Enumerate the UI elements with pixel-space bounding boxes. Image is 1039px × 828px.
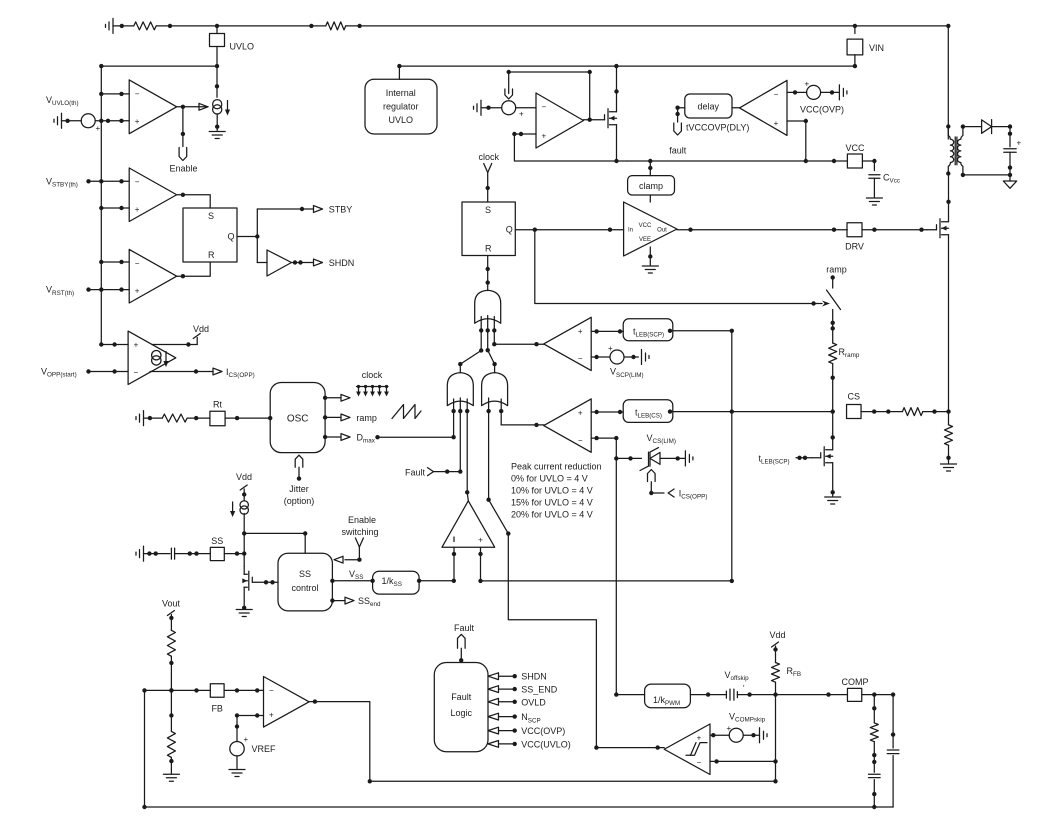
arrow into zener from I_CS(OPP): [648, 470, 656, 482]
voltage source VREF: [230, 742, 244, 756]
svg-text:VREF: VREF: [252, 744, 277, 754]
wire: CS pin to sense resistor: [861, 411, 902, 413]
wire: FF2 Q to driver: [515, 229, 623, 231]
wire: plus rail through to Vdd tick: [152, 344, 197, 346]
wire: Q2 source to VCC rail: [616, 125, 618, 161]
latch FF1 (STBY/SHDN): [183, 208, 237, 262]
block t_LEB(SCP): [623, 319, 673, 341]
svg-text:VCC(OVP): VCC(OVP): [521, 726, 565, 736]
svg-text:−: −: [578, 354, 583, 363]
svg-text:Fault: Fault: [405, 468, 426, 478]
svg-text:SHDN: SHDN: [329, 258, 355, 268]
wire to bottom rail: [873, 780, 875, 807]
op-amp U6 (error amplifier): [264, 677, 310, 728]
wire: [481, 107, 502, 109]
wire: current source to ground: [216, 114, 218, 131]
svg-text:−: −: [135, 89, 140, 98]
svg-text:+: +: [96, 124, 101, 133]
wire: V_RST to U3 plus: [89, 289, 130, 291]
OR3 input stubs: [488, 398, 490, 500]
resistor Rfb2 (lower divider): [167, 731, 175, 757]
pin SS: [210, 547, 224, 560]
input VCC(UVLO) of Fault Logic: [488, 741, 499, 748]
svg-text:Internal: Internal: [386, 88, 416, 98]
wire: RFB to COMP node: [775, 682, 777, 694]
wire: Q branch down to ramp switch: [535, 230, 822, 304]
wire: switch to Rramp: [832, 310, 834, 344]
wire: Rt pin to OSC: [225, 417, 270, 419]
wire: U11 output to delay: [732, 107, 740, 109]
wire: t_LEB(SCP) out to vertical: [673, 330, 732, 332]
comparator U11 (VCC OVP): [740, 80, 788, 135]
gate OR1: [475, 290, 501, 323]
wire: delay out to fault arrow: [678, 107, 685, 109]
wire: U2 output to latch S input: [177, 195, 210, 208]
wire: U7 output to pass transistor gate: [584, 119, 605, 121]
wire: R2 to VIN node to transformer corner: [346, 25, 949, 27]
svg-text:OSC: OSC: [287, 414, 309, 425]
transistor Q3 (main switch): [927, 229, 937, 231]
wire: source node down to Rcs: [948, 412, 950, 425]
svg-text:switching: switching: [341, 527, 378, 537]
wire: Q branch to buffer: [257, 262, 267, 264]
input VCC(OVP) of Fault Logic: [488, 727, 499, 734]
svg-text:Fault: Fault: [451, 692, 472, 702]
svg-text:SS_END: SS_END: [521, 685, 558, 695]
svg-text:clock: clock: [362, 370, 383, 380]
current source I3 (soft start): [240, 501, 248, 509]
wire: secondary bottom: [963, 174, 1010, 176]
svg-text:(option): (option): [284, 496, 315, 506]
wire to ground: [170, 757, 172, 773]
battery V_offskip (stack): [725, 691, 727, 698]
pin FB: [210, 684, 224, 698]
wire: U13 output to skip path vertical: [596, 747, 664, 749]
wire: bus to U2 plus: [101, 207, 129, 209]
wire: Q4 source to ground: [832, 463, 834, 496]
wire: driver VEE to ground: [649, 247, 651, 265]
svg-text:+: +: [135, 205, 140, 214]
wire: SS pin to vertical: [224, 553, 244, 555]
wire: bus to U5 plus input: [101, 344, 128, 346]
wire: U5 output to I_CS(OPP) arrow: [150, 371, 213, 373]
input SHDN of Fault Logic: [488, 673, 499, 680]
ground: [642, 265, 658, 267]
svg-text:+: +: [134, 341, 139, 350]
wire: rail y66 right segment: [399, 65, 855, 67]
wire: U13 minus to COMP vertical: [710, 760, 776, 762]
arrow SHDN: [314, 259, 323, 266]
wire: bus to U3 minus: [101, 261, 129, 263]
wire: COMP node down to skip minus and comp rail: [775, 695, 777, 782]
transformer T1 secondary: [958, 127, 963, 175]
Vdd symbol: [193, 334, 200, 339]
current source I2 (OPP): [152, 351, 161, 360]
battery B5 (reg reference): [480, 100, 482, 115]
comparator U7 (internal regulator): [536, 93, 584, 148]
wire: clock to FF2 S input: [487, 173, 489, 203]
capacitor Ccomp1: [869, 773, 881, 775]
wire: V_OPP to U5 minus input: [89, 371, 129, 373]
wire: [873, 178, 875, 197]
svg-text:Vdd: Vdd: [193, 324, 209, 334]
Vdd symbol: [772, 642, 779, 647]
wire: left comparator bus (vertical): [100, 66, 102, 344]
wire: error amp output to comp rail: [309, 702, 775, 782]
comparator U1 (UVLO th): [129, 80, 177, 134]
arrow Enable: [179, 148, 187, 161]
resistor Rsense (horizontal): [902, 408, 922, 416]
svg-text:+: +: [135, 287, 140, 296]
output V_SS: [332, 580, 372, 582]
wire: DRV pin to switch gate: [862, 229, 927, 231]
capacitor C_out: [1004, 148, 1016, 150]
wire: 1/k_SS out to PWM comparator minus: [419, 580, 454, 582]
input OVLD of Fault Logic: [488, 698, 499, 705]
svg-text:−: −: [269, 686, 274, 695]
svg-text:R: R: [485, 244, 492, 254]
wire: t_LEB vertical: [731, 331, 733, 581]
wire: source to comparator U7 minus: [516, 107, 536, 109]
svg-text:Vout: Vout: [162, 599, 181, 609]
comparator U9 (SCP): [544, 317, 592, 370]
voltage source VCC(OVP): [807, 85, 821, 99]
input SS_END of Fault Logic: [488, 686, 499, 693]
svg-text:Vdd: Vdd: [236, 472, 252, 482]
ground (chassis) secondary: [1003, 181, 1016, 188]
comparator U5 (OPP): [128, 331, 176, 384]
gate OR3: [482, 373, 508, 406]
wire: [113, 25, 134, 27]
current source I1 (enable): [213, 100, 222, 109]
comparator U3 (RST th): [129, 249, 177, 303]
wire: U13 plus to V_COMPskip: [710, 734, 729, 736]
Vout tick: [167, 611, 174, 616]
svg-text:VCC(OVP): VCC(OVP): [800, 105, 844, 115]
wire: OR1 mid input from OR3: [488, 350, 495, 372]
wire: Q3 source down to CS node: [948, 235, 950, 412]
latch FF2 (PWM): [462, 202, 515, 256]
svg-text:Logic: Logic: [450, 708, 472, 718]
wire: Vout down to divider: [170, 615, 172, 631]
capacitor C_Vcc: [869, 174, 880, 176]
svg-text:Enable: Enable: [169, 164, 197, 174]
wire: Fault to OR2 middle input: [434, 471, 461, 473]
wire: bus to U1 minus input: [101, 93, 129, 95]
ground: [236, 609, 252, 611]
input Enable switching into SS control: [355, 538, 359, 547]
voltage source V_UVLO(th): [81, 114, 95, 128]
pin COMP: [847, 688, 861, 701]
resistor Rcomp: [870, 723, 878, 742]
svg-text:+: +: [519, 110, 524, 119]
wire down to cap: [1009, 127, 1011, 147]
wire: SS node branch to SS control top: [244, 533, 305, 553]
svg-text:+: +: [269, 711, 274, 720]
svg-text:+: +: [244, 735, 249, 744]
arrow STBY: [314, 206, 323, 213]
ground: [866, 197, 882, 199]
svg-text:+: +: [727, 724, 732, 733]
battery B8: [838, 85, 840, 100]
svg-text:−: −: [542, 103, 547, 112]
wire: U11 plus input to VCC rail: [787, 121, 806, 161]
wire: source to U1 plus input: [95, 120, 129, 122]
block delay: [685, 94, 732, 118]
ground: [229, 769, 245, 771]
pin Rt: [210, 411, 225, 426]
pin DRV: [847, 223, 862, 237]
wire: FF2 R input from OR1: [487, 256, 489, 283]
wire: [873, 742, 875, 773]
pin UVLO: [216, 26, 218, 34]
voltage source (reg reference): [502, 101, 516, 115]
wire: U3 output to latch R input: [177, 262, 210, 276]
battery B4 (SS): [143, 546, 145, 561]
svg-text:20% for UVLO = 4 V: 20% for UVLO = 4 V: [511, 509, 593, 519]
wire: battery to source: [62, 120, 82, 122]
wire: Q3 drain up to transformer: [948, 174, 950, 222]
OR2 input stubs: [453, 399, 455, 437]
svg-text:+: +: [578, 408, 583, 417]
wire + chevron I_CS(OPP) input: [651, 492, 664, 494]
svg-text:SHDN: SHDN: [521, 672, 547, 682]
svg-text:ramp: ramp: [826, 265, 847, 275]
wire: label to Q4 gate: [796, 457, 812, 459]
sawtooth waveform: [392, 405, 421, 419]
comparator U13 (skip, hysteresis): [664, 724, 710, 775]
transistor Q4 (t_LEB blanking): [812, 457, 821, 459]
wire: 1/k_PWM out to V_offskip: [706, 692, 710, 696]
wire: OR3 right input from CS comparator: [501, 424, 544, 426]
wire: OR1 left input from OR2: [460, 351, 481, 373]
block OSC: [270, 383, 325, 453]
wire: FB pin to error amp minus: [224, 689, 263, 691]
svg-text:+: +: [478, 536, 483, 545]
block Internal regulator UVLO: [398, 66, 400, 79]
wire: resistor to Rt pin: [187, 417, 210, 419]
wire to ground: [948, 445, 950, 463]
wire: buffer out to SHDN arrow: [292, 262, 314, 264]
svg-text:Peak current reduction: Peak current reduction: [511, 462, 602, 472]
svg-text:+: +: [135, 117, 140, 126]
wire: clamp to driver: [649, 195, 651, 202]
output ramp of OSC: [325, 416, 341, 418]
svg-text:+: +: [578, 327, 583, 336]
hysteresis glyph: [686, 743, 707, 756]
block clamp: [649, 161, 651, 176]
wire: [144, 553, 170, 555]
svg-text:tVCCOVP(DLY): tVCCOVP(DLY): [686, 123, 749, 133]
svg-text:DRV: DRV: [845, 242, 864, 252]
gate OR2: [447, 373, 473, 406]
output SS_end: [332, 600, 345, 602]
wire: Q1 gate to SS control: [256, 581, 278, 583]
wire: cap to bottom + secondary return: [1009, 152, 1011, 181]
capacitor Ccomp2: [887, 749, 899, 751]
svg-text:fault: fault: [669, 146, 687, 156]
ground: [825, 496, 841, 498]
svg-text:Jitter: Jitter: [289, 484, 309, 494]
svg-text:ramp: ramp: [356, 413, 377, 423]
wire: UVLO pin down to rail y66: [216, 47, 218, 67]
wire: Q4 drain to CS vertical: [832, 412, 834, 450]
wire: OR1 right input from SCP comparator: [494, 343, 544, 345]
wire: [743, 734, 759, 736]
wire: divider mid node to FB row: [170, 656, 172, 715]
svg-text:COMP: COMP: [842, 677, 869, 687]
Vdd symbol: [240, 485, 247, 490]
svg-text:−: −: [697, 758, 702, 767]
wire: VCC rail to VCC pin: [628, 160, 848, 162]
driver U12: [624, 202, 677, 256]
buffer U4 (SHDN): [267, 250, 292, 276]
wire: UVLO vertical to current source: [216, 66, 218, 97]
wire: rail y66 left segment to comparator bus: [101, 65, 217, 67]
svg-text:regulator: regulator: [383, 102, 419, 112]
resistor RFB: [772, 663, 780, 683]
svg-text:clock: clock: [479, 152, 500, 162]
battery B2 (V_UVLO source): [61, 113, 63, 128]
svg-text:delay: delay: [697, 102, 719, 112]
output Dmax of OSC: [325, 436, 341, 438]
wire: U11 minus to source: [787, 91, 807, 93]
input Jitter of OSC: [298, 467, 300, 478]
wire: [821, 91, 840, 93]
wire: FF1 Q output branch: [237, 236, 257, 238]
voltage source V_COMPskip: [729, 728, 743, 742]
resistor Rramp: [829, 343, 837, 364]
wire: left branch down to bottom rail: [144, 690, 146, 807]
wire: R1 to UVLO node and on to R2: [156, 25, 326, 27]
transistor Q1 (SS discharge): [243, 554, 245, 567]
transistor Q2 (pass device): [604, 119, 606, 121]
comparator U10 (CS limit): [544, 399, 592, 452]
wire: [144, 417, 163, 419]
clock Y symbol: [484, 164, 488, 173]
svg-text:0% for UVLO = 4 V: 0% for UVLO = 4 V: [511, 474, 588, 484]
svg-text:−: −: [578, 436, 583, 445]
svg-text:Q: Q: [506, 225, 513, 235]
svg-text:Out: Out: [657, 228, 667, 234]
capacitor C_SS: [170, 548, 172, 559]
wire: U10 plus input to t_LEB(CS): [591, 411, 623, 413]
OR1 input stubs: [480, 317, 482, 351]
wire: VCC pin to C_Vcc: [862, 161, 874, 171]
transformer T1 primary: [948, 127, 953, 174]
wire: Q2 drain to top rail: [616, 66, 618, 112]
arrow into current source: [199, 103, 208, 110]
zener D2 (V_CS(LIM) clamp, adjustable): [648, 452, 650, 466]
svg-text:R: R: [208, 250, 215, 260]
svg-text:Enable: Enable: [348, 515, 376, 525]
svg-text:+: +: [697, 734, 702, 743]
arrow Fault up: [458, 634, 466, 648]
wire: t_LEB(CS) out to CS pin rail: [673, 411, 833, 413]
svg-text:Vdd: Vdd: [769, 630, 785, 640]
pin CS: [847, 404, 862, 418]
wire: Vdd to current source: [243, 489, 245, 500]
ground: [163, 773, 179, 775]
wire: Vdd to RFB: [775, 646, 777, 663]
wire: V_CS(LIM) node to zener: [616, 457, 641, 459]
svg-text:OVLD: OVLD: [521, 697, 546, 707]
svg-text:−: −: [774, 90, 779, 99]
U8 input stubs: [453, 547, 455, 581]
pin VCC: [847, 154, 862, 168]
wire: U1 output to current source: [177, 106, 208, 108]
wire: Dmax to OR2 left input: [378, 436, 454, 438]
svg-text:+: +: [805, 80, 810, 89]
svg-text:clamp: clamp: [639, 181, 663, 191]
battery B3 (Rt): [143, 411, 145, 426]
wire: V_offskip to COMP node: [690, 694, 726, 696]
wire: U9 minus to V_SCP(LIM): [591, 356, 610, 358]
wire: feedback from output over the top into source: [509, 72, 590, 120]
wire: VREF to ground: [236, 756, 238, 769]
wire: comp branch 1 down: [873, 695, 875, 723]
wire: driver out to DRV pin: [677, 229, 847, 231]
bottom rail: [145, 806, 894, 808]
block 1/k_PWM: [645, 684, 691, 708]
wire: U7 plus input from source rail: [514, 134, 627, 161]
wire: COMP pin to compensation network: [862, 694, 893, 696]
wire: V_CS(LIM) node down to 1/k_PWM: [616, 458, 644, 694]
wire: U10 minus to V_CS(LIM) node: [591, 438, 616, 458]
svg-text:control: control: [291, 583, 318, 593]
arrow I_CS(OPP): [213, 368, 222, 375]
wire: VREF to plus input: [237, 715, 264, 717]
resistor Rt external: [162, 414, 187, 422]
svg-text:FB: FB: [211, 704, 223, 714]
svg-text:SS: SS: [299, 569, 311, 579]
pin VIN: [854, 26, 856, 34]
battery B7: [684, 451, 686, 466]
svg-text:VCC: VCC: [845, 143, 865, 153]
svg-text:VIN: VIN: [869, 43, 884, 53]
resistor Rcs (vertical): [945, 425, 953, 446]
battery B9: [759, 728, 761, 743]
transformer T1 core: [954, 137, 956, 165]
voltage source V_SCP(LIM): [610, 350, 624, 364]
svg-text:S: S: [485, 205, 491, 215]
wire: U8 plus input rail to t_LEB vertical: [481, 580, 732, 582]
svg-text:Rt: Rt: [213, 400, 222, 410]
svg-text:−: −: [134, 368, 139, 377]
svg-text:VCC: VCC: [639, 223, 652, 229]
resistor R2 (startup, right): [326, 22, 346, 30]
svg-text:Q: Q: [228, 232, 235, 242]
wire: U9 plus input to t_LEB(SCP): [591, 330, 623, 332]
svg-text:+: +: [774, 119, 779, 128]
svg-text:VCC(UVLO): VCC(UVLO): [521, 739, 571, 749]
svg-text:S: S: [208, 211, 214, 221]
wire: Rsense to source node: [923, 411, 949, 413]
resistor Rfb1 (upper divider): [167, 630, 175, 656]
wire: cap to SS pin: [175, 553, 211, 555]
wire: FB row left branch: [145, 689, 211, 691]
battery B6: [641, 350, 643, 365]
block SS control: [278, 553, 332, 611]
resistor R1 (startup, left): [134, 22, 156, 30]
wire: V_STBY to U2 minus: [89, 180, 130, 182]
wire: current source to SS node: [243, 514, 245, 554]
clock waveform comb: [357, 386, 389, 388]
svg-text:Fault: Fault: [454, 623, 475, 633]
comparator U8 (PWM): [442, 501, 495, 547]
svg-text:UVLO: UVLO: [389, 115, 414, 125]
wire: U8 output up to OR2 right input: [467, 492, 468, 501]
